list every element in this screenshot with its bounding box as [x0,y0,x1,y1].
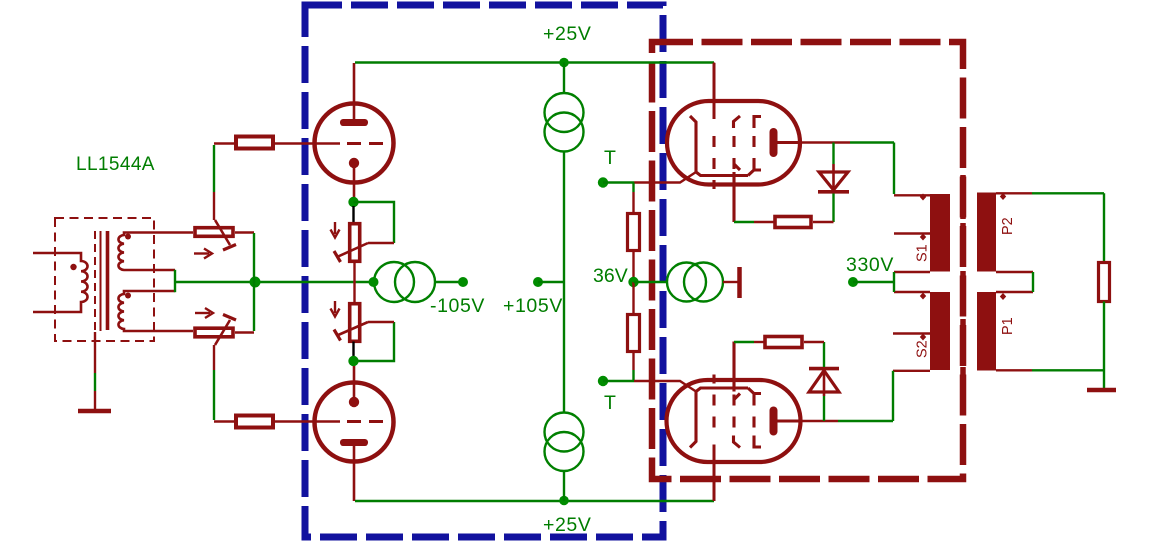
wire: lower trimmer out (green vertical) [253,282,255,331]
triode V2 grid dashes [347,420,383,423]
ground (CS4, vertical bar) [737,267,742,298]
winding P1 [977,292,996,371]
wire: divider top [632,183,634,193]
wire: S2 bottom to V4 anode [893,370,930,372]
node: V1 cathode [348,197,358,207]
output transformer core (dashed) [960,175,966,395]
resistor Rload [1099,263,1110,302]
arrow down (upper vertical trimmer) [334,222,336,234]
trimmer RV2 wiper [337,322,368,336]
defs [33,5,963,537]
V3 anode lead [777,141,800,144]
svg-text:S1: S1 [915,244,931,262]
svg-text:+25V: +25V [543,23,591,45]
pentode V4 (lower output tube) [667,342,801,502]
P1 polarity dot [1000,293,1006,300]
transformer T1 secondary winding upper [118,233,193,271]
svg-text:T: T [604,147,617,169]
diode D1 (upper, pointing down) [819,172,848,190]
feedback loop V1 (green) [354,202,395,243]
trimmer P1a leads [235,231,254,233]
wire: Rfb2 to V4 grid [754,341,765,343]
current source CS4 (36V reference) [667,263,706,302]
secondary lower polarity dot [125,293,131,299]
wire: T lower to V4 cathode [634,381,696,392]
secondary upper polarity dot [125,234,131,240]
node: CS1 left terminal [369,277,379,287]
wire: +25V bottom rail [355,500,714,502]
P2 polarity dot [1000,193,1006,200]
triode V1 grid dashes [347,142,383,145]
V3 grid g1 column [754,117,761,171]
triode V2 anode lead [353,445,356,501]
svg-text:+25V: +25V [543,514,591,536]
ground (load) [1087,388,1116,393]
triode V2 (lower) envelope [315,383,394,462]
V3 grid g2 column [734,116,741,128]
svg-text:-105V: -105V [430,295,485,317]
trimmer P1b wiper [215,320,230,345]
transformer core line 1 [100,231,102,331]
wire: CS1 right to -105V [435,281,463,283]
S1 mid tap stub [894,232,930,234]
arrow right (lower trimmer) [195,312,210,314]
node: 36V [628,277,638,287]
triode V1 anode bar [340,119,368,126]
trimmer RV2 (lower vertical) body [350,304,360,342]
svg-text:330V: 330V [846,254,894,276]
wire: CS4 to ground [723,281,738,283]
triode V1 cathode lead [353,167,356,198]
V3 cathode [690,116,755,176]
P2/P1 series tap [996,272,1033,292]
transformer core line 2 (thick) [106,231,110,330]
wire: D1 to R fb1 [832,194,834,223]
trimmer P1a (upper horizontal) body [195,228,233,237]
S2 mid tap stub [893,332,930,334]
winding S1 [930,194,950,272]
triode V1 (upper) envelope [315,104,394,183]
current source CS3 (middle bottom) [545,413,584,452]
resistor Rfb2 (V4 grid resistor) [765,337,802,348]
wire: +25V bottom rail into V4 screen [713,462,715,501]
wire: divider middle lower [632,282,634,314]
resistor Rd1 (divider upper) [628,214,640,251]
wire: P2 top to load [996,192,1032,194]
ground (shield) [78,409,111,414]
current source CS1 (left, horizontal) [374,262,414,302]
triode V2 cathode dot [349,397,359,407]
wire: T lower to divider [603,380,634,382]
V4 cathode [690,388,755,448]
svg-text:LL1544A: LL1544A [76,154,155,175]
wire: Rfb1 to V3 grid [754,221,775,223]
arrow down (lower vertical trimmer) [334,301,336,313]
wire: D2 to Rfb2 [823,342,825,367]
arrow right (upper trimmer) [194,252,209,254]
V4 grid g1 column [754,394,761,448]
resistor Rg2 (lower grid) [236,416,273,428]
blue dashed box (driver stage frame) [305,5,663,537]
svg-text:S2: S2 [915,340,931,358]
node: +25V top [559,58,569,68]
triode V2 cathode lead [353,366,356,398]
wire: upper trimmer wiper to grid resistor [213,192,215,220]
resistor Rfb1 (V3 grid resistor) [775,217,811,228]
V4 anode bar [770,407,778,436]
V4 anode lead [777,420,800,423]
wire: lower trimmer wiper to grid resistor [213,345,215,370]
trimmer P1b (lower horizontal) body [195,328,233,337]
wire: diode D1 top connection [832,143,834,165]
shield ground wire [94,332,96,373]
trimmer P1b leads [235,331,254,333]
resistor Rg1 (upper grid) [236,137,273,149]
dark red dashed box (output stage frame) [652,42,963,479]
svg-text:+105V: +105V [503,295,563,317]
winding P2 [977,193,996,272]
input transformer dashed box [55,218,154,341]
wire: divider bottom [632,352,634,371]
primary polarity dot [70,264,76,270]
pentode V3 (upper output tube) [667,63,800,222]
transformer core shield (dashed) [94,231,96,332]
wire: V3 anode to output transformer [800,141,850,144]
secondary center-tap join (green) [174,270,176,292]
node: T lower [598,376,608,386]
V3 envelope [667,101,800,185]
wire: T upper to V3 cathode [634,172,696,183]
wire: load resistor top [1103,193,1105,262]
triode V1 anode lead [353,63,356,120]
wire: S1 top feed [893,143,895,195]
V3 anode bar [770,128,778,157]
node: center junction dot [250,277,261,288]
winding S2 [930,292,950,370]
node: +25V bottom [559,496,569,506]
wire: center tap to node [176,281,374,283]
svg-text:T: T [604,392,617,414]
wire: trimmer RV2 top to center rail [353,282,355,304]
S2 polarity dot [920,293,926,300]
wire: upper trimmer out (green vertical) [253,233,255,282]
wire: V4 anode to output transformer [800,420,838,423]
wire: V1 cathode to trimmer (black overlap) [352,206,354,223]
wire: diode D2 bottom connection [823,396,825,421]
wire: +25V top rail [355,61,714,63]
wire: divider middle upper [632,251,634,283]
node: V2 cathode [348,356,358,366]
triode V1 cathode dot [349,158,359,168]
wire: middle vertical rail [563,63,565,94]
feedback loop V2 (green) [354,322,395,361]
resistor Rd2 (divider lower) [628,315,640,352]
wire: load resistor bottom [1103,302,1105,390]
wire: 36V to CS4 [634,281,668,283]
trimmer RV1 wiper [337,243,368,257]
V4 grid g3 column [713,445,716,502]
wire: +25V rail into V3 screen [713,63,715,102]
wire: P1 bottom to load return [996,369,1032,371]
trimmer RV1 (upper vertical) body [350,224,360,262]
S1/S2 series tap [894,272,930,292]
V3 grid g3 column [713,63,716,119]
wire: T upper to divider [603,181,634,183]
wire: +105V stub [538,281,564,283]
transformer T1 secondary winding lower [118,291,193,331]
transformer T1 primary winding [33,253,88,312]
triode V2 anode bar [340,439,368,446]
wire: RV2 bottom to V2 cathode (black overlap) [352,342,354,359]
wire: 330V node [848,277,858,287]
diode D2 (lower, pointing up) [809,371,839,393]
node: -105V terminal [458,277,468,287]
V4 grid g2 column [734,436,741,448]
V4 envelope [667,380,801,462]
S1 polarity dot [920,194,926,201]
svg-text:P2: P2 [1000,217,1016,235]
node: T upper [598,177,608,187]
trimmer P1a wiper [215,220,230,245]
svg-text:P1: P1 [1000,317,1016,335]
wire: trimmer RV1 bottom to center rail [353,262,355,283]
current source CS2 (middle top) [545,93,584,132]
svg-text:36V: 36V [593,265,628,287]
node: +105V terminal [533,277,543,287]
